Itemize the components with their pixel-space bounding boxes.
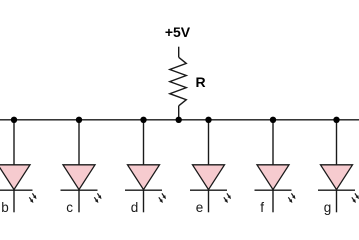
svg-text:g: g <box>324 200 332 215</box>
svg-text:b: b <box>1 200 9 215</box>
svg-text:+5V: +5V <box>165 24 191 40</box>
svg-text:f: f <box>260 200 264 215</box>
svg-text:e: e <box>196 200 204 215</box>
svg-text:c: c <box>66 200 73 215</box>
svg-text:d: d <box>131 200 139 215</box>
svg-text:R: R <box>196 74 206 90</box>
